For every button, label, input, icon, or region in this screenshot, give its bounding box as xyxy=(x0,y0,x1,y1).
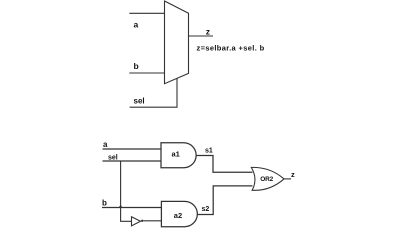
svg-text:z: z xyxy=(291,170,295,179)
AND gate a1 xyxy=(161,143,196,168)
wire b (mux input b) xyxy=(129,72,164,74)
inverter on sel (selbar) xyxy=(132,217,141,226)
svg-text:a: a xyxy=(134,20,139,30)
svg-text:b: b xyxy=(134,61,139,71)
AND gate a2 xyxy=(161,201,197,226)
wire s2 (a2 output to OR) xyxy=(197,186,252,215)
OR gate OR2 xyxy=(251,167,284,190)
svg-text:s2: s2 xyxy=(202,206,210,213)
inverter bubble xyxy=(141,220,143,222)
wire sel (gate circuit select) xyxy=(103,160,162,162)
wire sel branch to inverter xyxy=(121,161,132,221)
wire a (gate circuit input a) xyxy=(103,148,162,150)
svg-text:a: a xyxy=(103,140,108,149)
wire z (mux output) xyxy=(189,35,214,37)
svg-text:a2: a2 xyxy=(174,211,182,220)
junction sel over b wire xyxy=(119,205,122,208)
svg-text:z: z xyxy=(206,26,210,36)
svg-text:sel: sel xyxy=(108,155,118,162)
svg-text:sel: sel xyxy=(134,96,145,105)
wire b (gate circuit input b) xyxy=(102,207,161,209)
multiplexer U1 xyxy=(165,1,189,84)
wire selbar to a2 xyxy=(143,220,161,222)
svg-text:a1: a1 xyxy=(172,150,180,159)
wire a (mux input a) xyxy=(129,12,164,14)
svg-text:z=selbar.a +sel. b: z=selbar.a +sel. b xyxy=(197,43,265,52)
svg-text:b: b xyxy=(102,199,107,208)
svg-text:s1: s1 xyxy=(205,148,213,155)
wire s1 (a1 output to OR) xyxy=(196,156,252,173)
svg-text:OR2: OR2 xyxy=(260,176,273,183)
wire sel (mux select) xyxy=(130,78,177,107)
wire z (OR output) xyxy=(284,178,291,180)
